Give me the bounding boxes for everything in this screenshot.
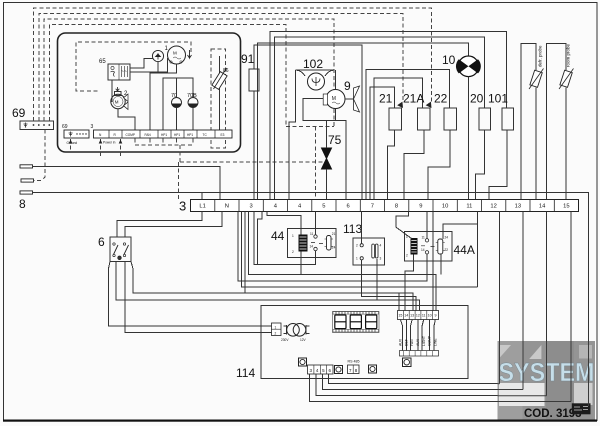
screw terminal A: [299, 358, 307, 366]
wire dashed bus D2: [39, 14, 403, 122]
svg-text:113: 113: [343, 222, 362, 236]
wire 91 bottom to terminal 3: [253, 91, 255, 200]
wire terminal 11 jog to right drop: [477, 212, 479, 288]
wire 44A coil bottom to conn: [405, 255, 414, 311]
wire 21A bottom to terminal 8: [404, 130, 424, 200]
resistor 21: [389, 108, 402, 130]
wire 101 bottom to terminal 12: [489, 130, 507, 200]
svg-text:AUX: AUX: [416, 338, 420, 346]
svg-text:2: 2: [356, 244, 358, 248]
resistor 22: [444, 108, 457, 130]
defrost probe loop: [521, 44, 536, 200]
wire motor 9 bottom to bus: [335, 109, 337, 121]
connector 12 (mains in): [272, 323, 282, 336]
wire 44A coil diagonal feed from terminal 8: [396, 212, 412, 239]
svg-text:COMP: COMP: [126, 133, 136, 137]
down arrow right of motor 1: [188, 50, 192, 58]
svg-text:7: 7: [371, 204, 374, 210]
wire bus S4 terminal7 to 22: [366, 70, 450, 200]
svg-text:24: 24: [445, 236, 449, 240]
wire 6 to terminal N: [125, 212, 222, 238]
switch 6 flare: [109, 262, 133, 269]
signal lamp 10: [456, 56, 481, 77]
wire dashed 69 to stub2: [34, 130, 45, 181]
wire 20 bottom to terminal 12: [475, 130, 484, 200]
svg-text:86: 86: [223, 68, 229, 74]
wire dashed bus D3: [44, 19, 334, 127]
lamp 70: [172, 98, 182, 108]
wire 44 pin11 to terminal 5: [315, 212, 317, 235]
wire motor 1 down to FAN terminal: [150, 64, 177, 130]
svg-text:14: 14: [404, 314, 408, 318]
wire conn3456 pin4 to terminal 14 line: [316, 374, 547, 396]
svg-text:N: N: [225, 204, 229, 210]
wire lamps top bus: [163, 78, 193, 130]
svg-text:2: 2: [292, 250, 294, 254]
svg-text:DEF: DEF: [404, 339, 408, 346]
svg-text:1: 1: [356, 257, 358, 261]
wire 6 leg3 to 114 conn12: [125, 262, 272, 333]
svg-text:3: 3: [380, 257, 382, 261]
svg-text:21: 21: [332, 232, 336, 236]
wire 44 coil bottom bus to conn: [249, 212, 436, 311]
dashed power-in arrow L: [100, 139, 102, 158]
svg-text:20: 20: [470, 92, 484, 106]
wire terminal 4b to conn pin15: [245, 212, 399, 311]
component 91 (fuse): [249, 69, 259, 91]
svg-text:8: 8: [19, 197, 26, 211]
compressor 2: arrow: [116, 87, 120, 91]
wire dashed bus D1: [34, 8, 432, 121]
wire 6 leg1 to 114 conn12: [109, 268, 272, 326]
page frame bottom thick: [3, 420, 597, 422]
svg-text:13: 13: [410, 314, 414, 318]
unit box 1 terminal strip: [94, 130, 233, 138]
relay 44: [288, 229, 337, 258]
svg-text:11: 11: [466, 204, 472, 210]
svg-text:8: 8: [395, 204, 398, 210]
svg-text:10: 10: [442, 53, 456, 67]
svg-text:HP1: HP1: [174, 133, 180, 137]
svg-text:LINE: LINE: [434, 338, 438, 346]
wire 65 down to compressor: [111, 80, 112, 102]
screw terminal D: [403, 358, 412, 367]
wire bus S1 terminal4 to 101: [270, 32, 507, 200]
controller board 114: [261, 306, 468, 379]
svg-text:14: 14: [539, 204, 546, 210]
svg-text:22: 22: [445, 248, 449, 252]
svg-text:12V: 12V: [300, 338, 307, 342]
svg-text:12: 12: [490, 204, 496, 210]
compressor 2: motor circle: [111, 94, 125, 108]
wire terminal 10 down: [432, 212, 434, 288]
svg-text:14: 14: [310, 245, 314, 249]
wire 102 right leg into motor 9: [335, 70, 337, 90]
svg-text:9: 9: [435, 314, 437, 318]
svg-text:11: 11: [422, 236, 426, 240]
relay 113: [353, 238, 385, 265]
fan 9 shaft and blades: [345, 98, 354, 100]
overload relay 65: [108, 64, 130, 80]
svg-text:3: 3: [91, 124, 94, 130]
wire 21 bottom to terminal 8: [388, 130, 395, 200]
arrow D2 to 21: [397, 102, 405, 110]
wire 65 to motor 1: [130, 58, 168, 72]
wire 21A feed from terminal 7: [374, 78, 423, 200]
stub terminal b: [21, 179, 34, 182]
svg-text:230V: 230V: [281, 338, 289, 342]
wire lamp 70B to HP terminal: [192, 108, 194, 131]
stub terminal c: [20, 191, 33, 194]
dashed ground arrow: [70, 139, 72, 150]
svg-text:24: 24: [332, 246, 336, 250]
svg-text:69: 69: [12, 106, 26, 120]
stub terminal a: [20, 165, 33, 168]
svg-text:M: M: [173, 51, 177, 56]
wire dashed link to valve circuit: [286, 127, 334, 200]
defrost probe sensor: [529, 69, 544, 90]
wire terminal 12 down: [499, 212, 501, 384]
svg-text:defr. probe: defr. probe: [538, 45, 543, 67]
wire stub-c to right edge and down to logo: [33, 193, 589, 407]
wire bus S3 terminal3 to lamp 10: [258, 43, 469, 200]
lamp 70B: [188, 98, 198, 108]
wire 113 pin2 to terminal 7: [361, 212, 363, 244]
output wires with labels: [399, 320, 439, 357]
svg-text:21A: 21A: [403, 92, 424, 106]
resistor 20: [479, 108, 491, 130]
svg-text:6: 6: [346, 204, 349, 210]
svg-text:COMP: COMP: [428, 335, 432, 346]
wire bus S2 terminal4 to 20: [275, 37, 485, 200]
fan motor 9: [323, 90, 345, 109]
svg-text:10: 10: [428, 314, 432, 318]
svg-text:91: 91: [241, 52, 255, 66]
wire compressor to COMP terminal: [118, 109, 135, 130]
wire 6 leg2 to relay bus: [116, 262, 419, 311]
wire 6 leg4 to relay bus: [133, 268, 413, 311]
transformer: [281, 324, 310, 343]
svg-text:12: 12: [416, 314, 420, 318]
relay output connector 15..9: [398, 311, 439, 320]
wire 44A contact top feed: [443, 224, 478, 239]
7-segment display module: [333, 312, 380, 333]
arrow D1 to 21A: [426, 102, 434, 110]
svg-text:11: 11: [310, 232, 314, 236]
pressure switch 102: [308, 73, 325, 90]
svg-text:FAN: FAN: [145, 133, 152, 137]
svg-text:15: 15: [398, 314, 402, 318]
wire 44 pin14 to terminal 3: [254, 212, 316, 265]
svg-text:FAN: FAN: [410, 339, 414, 346]
wire lamp 10 down to terminal 11: [467, 77, 469, 200]
wire 91 top feed: [254, 45, 362, 200]
svg-text:10: 10: [442, 204, 448, 210]
ground terminal 69 inside box: [64, 130, 89, 138]
svg-text:69: 69: [62, 124, 68, 130]
svg-text:5: 5: [322, 204, 325, 210]
fan motor unit 1: motor circle: [168, 46, 186, 64]
svg-text:114: 114: [236, 366, 255, 380]
svg-text:4: 4: [380, 244, 382, 248]
svg-text:M: M: [332, 96, 336, 102]
wire conn3456 pin6 to terminal 12 line: [329, 374, 500, 384]
compressor 2: blades: [124, 94, 129, 110]
dashed power-in arrow R: [120, 139, 122, 158]
wire 21 feed from terminal 7: [370, 87, 395, 200]
svg-text:9: 9: [419, 204, 422, 210]
wire valve top to bus: [326, 121, 328, 149]
svg-text:44A: 44A: [454, 243, 475, 257]
wire terminal 13 down: [522, 212, 524, 390]
wire conn3456 pin5 to terminal 13 line: [322, 374, 523, 390]
compressor 2: terminal block: [115, 92, 122, 96]
wires crossing logo: [498, 341, 589, 406]
wire 102 left leg to terminal 4: [289, 70, 296, 200]
svg-text:LIGHT: LIGHT: [422, 336, 426, 346]
fan motor unit 1: small circle with arrow: [152, 50, 163, 61]
wire terminal 15 down: [570, 212, 572, 402]
svg-text:room probe: room probe: [566, 43, 571, 67]
svg-text:2: 2: [275, 332, 277, 336]
svg-text:44: 44: [271, 229, 285, 243]
svg-text:2: 2: [406, 254, 408, 258]
wire 65 to small fan circle: [130, 59, 152, 69]
svg-text:9: 9: [344, 79, 351, 93]
svg-text:E3: E3: [221, 133, 225, 137]
svg-text:75: 75: [328, 133, 342, 147]
svg-text:65: 65: [99, 59, 106, 65]
wire lamp 70 to HP terminal: [176, 108, 178, 131]
svg-text:14: 14: [421, 248, 425, 252]
svg-text:21: 21: [379, 92, 393, 106]
wire conn3456 pin3 to terminal 15 line: [310, 374, 571, 402]
wire valve bottom to terminal 5: [326, 169, 328, 200]
resistor 101: [502, 108, 514, 130]
svg-text:RS 485: RS 485: [348, 360, 360, 364]
relay 44A: [405, 232, 453, 262]
svg-text:HP1: HP1: [161, 133, 167, 137]
screw terminal C: [369, 365, 377, 373]
svg-text:6: 6: [98, 235, 105, 249]
svg-text:AUX: AUX: [399, 338, 403, 346]
wire motor 9 left terminal loop: [303, 98, 346, 199]
connector 3456: [308, 365, 334, 374]
svg-text:3: 3: [179, 199, 186, 214]
wire 44 coil top to terminal 4: [267, 212, 301, 235]
svg-text:11: 11: [422, 314, 426, 318]
wire dashed bus D4: [49, 25, 286, 127]
svg-text:102: 102: [303, 57, 323, 71]
svg-text:22: 22: [434, 92, 448, 106]
switch 6: [110, 237, 131, 262]
wire terminal 14 down: [546, 212, 548, 396]
svg-text:13: 13: [515, 204, 521, 210]
wire 22 bottom to terminal 9: [428, 130, 450, 200]
resistor 21A: [418, 108, 431, 130]
wire 44A pin11 to terminal 9: [426, 212, 428, 239]
svg-text:70B: 70B: [187, 93, 197, 99]
svg-text:TC: TC: [203, 133, 208, 137]
room probe sensor: [559, 69, 574, 90]
wire stub-a to terminal N: [33, 167, 221, 200]
svg-text:101: 101: [488, 92, 508, 106]
wire H2 drop to conn: [432, 287, 434, 311]
wire 113 pin3 tap: [376, 259, 378, 300]
room probe loop: [547, 44, 567, 200]
svg-text:15: 15: [563, 204, 569, 210]
screw terminal B: [335, 366, 343, 374]
wire 44A contact bottom to bus: [440, 254, 442, 275]
connector 78: [348, 365, 360, 374]
svg-text:L1: L1: [199, 204, 205, 210]
svg-text:1: 1: [292, 234, 294, 238]
wire 113 pin1 to conn: [362, 260, 416, 311]
connector 69 (mains plug): [20, 121, 54, 130]
wire 44A pin14 to H1: [238, 212, 427, 282]
solenoid valve 75: [322, 148, 332, 169]
svg-text:Power in: Power in: [103, 141, 116, 145]
SYSTEM logo watermark: [498, 341, 596, 420]
svg-text:M: M: [115, 100, 119, 105]
dashed line to terminal L1: [179, 162, 327, 200]
svg-text:HP1: HP1: [187, 133, 193, 137]
wire small circle down: [157, 62, 159, 73]
terminal strip 3: [191, 200, 579, 212]
wire H2 terminal 4 to right drop: [242, 212, 478, 288]
pressure switch 102 dome: [296, 70, 335, 76]
inner dashed enclosure: [76, 42, 191, 91]
dashed bracket under unit terminals: [135, 139, 193, 163]
wire 6 to terminal L1: [117, 212, 202, 238]
svg-text:3: 3: [249, 204, 252, 210]
unit box 1 (condensing unit): [58, 33, 241, 152]
svg-text:1: 1: [275, 325, 277, 329]
sensor 86: [212, 56, 227, 132]
sensor 86 dashed enclosure: [211, 49, 226, 148]
